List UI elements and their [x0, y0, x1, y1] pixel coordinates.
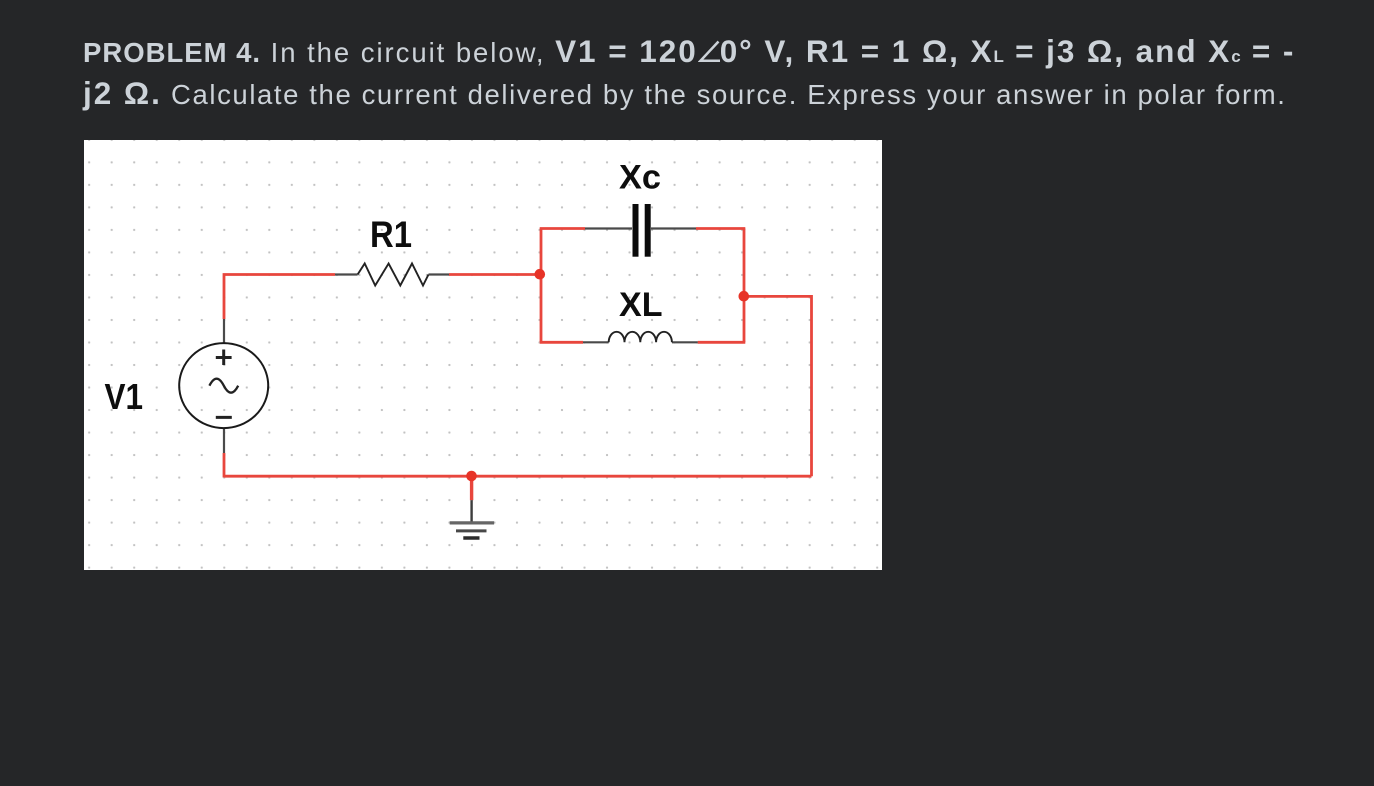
capacitor Xc plates — [633, 204, 639, 257]
wire: bottom branch right red — [698, 341, 746, 344]
svg-text:XL: XL — [619, 286, 663, 324]
node B: right branch junction dot — [739, 291, 750, 302]
schematic white panel with dot grid — [84, 140, 882, 570]
svg-text:R1: R1 — [370, 214, 412, 255]
wire: right branch vertical — [743, 229, 746, 343]
inductor XL leads — [583, 341, 698, 343]
problem statement line 1 — [83, 29, 1295, 80]
wire: top branch right red — [696, 227, 745, 230]
wire: bottom horizontal — [224, 475, 812, 478]
svg-text:Xc: Xc — [619, 158, 661, 196]
node C: ground junction dot — [466, 471, 477, 482]
wire: ground red stub — [470, 476, 473, 500]
voltage source V1 circle — [179, 343, 268, 428]
problem statement line 2 — [83, 71, 1287, 122]
inductor XL coil — [609, 332, 672, 343]
node A: left branch junction dot — [535, 269, 546, 280]
resistor R1 leads — [335, 273, 449, 275]
voltage source V1 leads — [223, 319, 225, 453]
resistor R1 zigzag — [358, 264, 429, 286]
wire: bottom branch left red — [540, 341, 583, 344]
wire: V1 bottom red segment — [223, 453, 226, 478]
svg-text:V1: V1 — [105, 376, 144, 417]
voltage source minus sign — [216, 416, 232, 419]
wire: top-left corner from V1 up to R1 — [224, 275, 335, 320]
ground bar 2 — [456, 529, 487, 532]
ground bar 3 — [463, 536, 479, 539]
wire: R1 right lead to left node — [449, 273, 541, 276]
wire: left branch vertical — [540, 229, 543, 343]
capacitor Xc leads — [585, 227, 696, 229]
wire: top branch left red — [540, 227, 585, 230]
wire: right node to outer right vertical down to bottom — [744, 296, 812, 476]
voltage source plus sign — [216, 350, 232, 366]
voltage source sine symbol — [209, 379, 238, 393]
ground black stub — [470, 500, 472, 521]
ground bar 1 — [450, 521, 494, 524]
